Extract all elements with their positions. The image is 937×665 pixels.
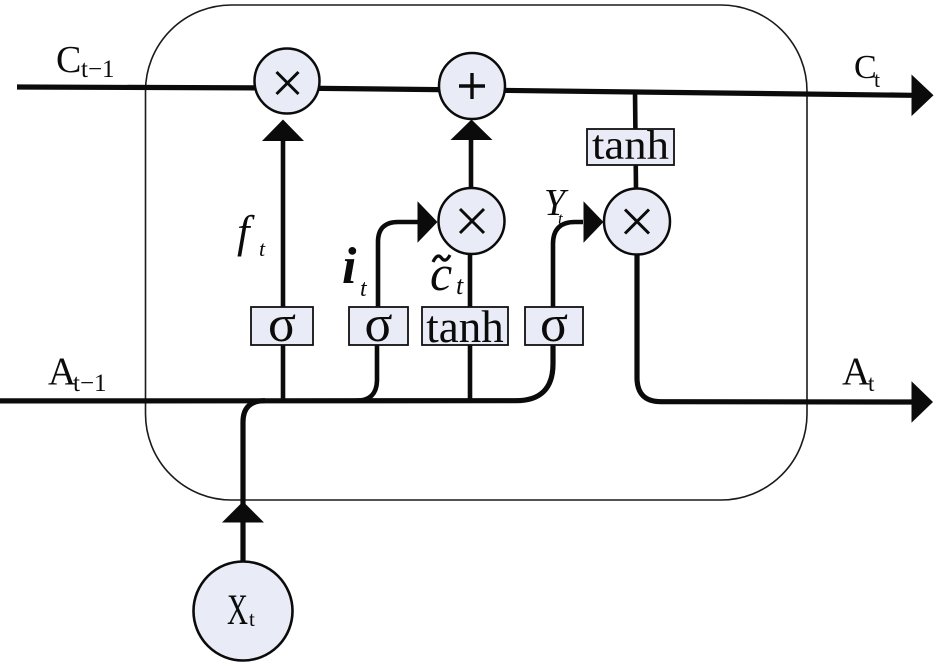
label i_t [342, 238, 368, 302]
svg-text:X: X [227, 587, 248, 634]
svg-text:tanh: tanh [426, 302, 503, 352]
label C_t [854, 49, 880, 92]
svg-text:t−1: t−1 [73, 370, 107, 397]
gate tanh-bottom box [422, 302, 508, 352]
gate tanh-top box [587, 122, 674, 168]
arrowhead into multiply2 [418, 201, 438, 243]
svg-text:t: t [249, 607, 255, 631]
wire i_t lower segment from A line to sigma2 [356, 345, 377, 401]
svg-text:σ: σ [540, 296, 568, 353]
wire i_t upper segment sigma2 to multiply2 [378, 222, 418, 307]
node X_t input circle [194, 562, 293, 661]
svg-text:t: t [259, 236, 266, 261]
wire A line (bottom rail left) [0, 345, 553, 401]
gate sigma2 box [349, 296, 408, 353]
arrowhead into plus [451, 120, 493, 141]
svg-text:t−1: t−1 [81, 56, 115, 83]
svg-text:tanh: tanh [592, 122, 669, 168]
wire C line (top rail) [17, 87, 912, 95]
label f_t [237, 207, 266, 261]
wire C line down through tanh-top to multiply3 [635, 91, 636, 190]
cell body rounded rectangle [146, 5, 808, 500]
arrowhead into multiply3 [584, 201, 604, 243]
svg-text:i: i [342, 238, 357, 295]
wire tanh-bottom vertical from A line to multiply2 [468, 255, 473, 401]
label c-tilde_t [430, 245, 464, 301]
wire A_t output from multiply3 [637, 255, 912, 402]
gate sigma3 box [525, 296, 583, 353]
svg-text:A: A [842, 350, 870, 393]
node multiply2 circle [439, 188, 505, 254]
svg-text:f: f [237, 207, 255, 257]
svg-text:c: c [430, 245, 452, 301]
gate sigma1 box [251, 296, 313, 353]
svg-text:A: A [48, 350, 76, 393]
label C_t-1 [56, 39, 115, 83]
node multiply1 circle [255, 49, 320, 114]
label A_t [842, 350, 875, 396]
wire X_t input up into cell joining A line [243, 401, 265, 562]
arrowhead X_t input [222, 502, 264, 523]
svg-text:t: t [868, 371, 875, 396]
label Y_t [544, 182, 569, 228]
svg-text:σ: σ [268, 296, 296, 353]
svg-text:t: t [456, 271, 464, 300]
node multiply3 circle [604, 189, 670, 255]
arrowhead A_t output [912, 381, 934, 423]
arrowhead C_t output [912, 75, 934, 117]
svg-text:t: t [874, 67, 880, 92]
arrowhead into multiply1 [262, 120, 304, 142]
node plus circle [439, 53, 505, 119]
wire multiply2 up to plus [469, 139, 474, 189]
label A_t-1 [48, 350, 107, 397]
wire f_t from A line up to multiply1 [281, 140, 286, 401]
svg-text:σ: σ [364, 296, 392, 353]
svg-text:C: C [56, 39, 81, 81]
wire sigma3 up to multiply3 [553, 222, 583, 307]
svg-text:Y: Y [544, 182, 569, 224]
